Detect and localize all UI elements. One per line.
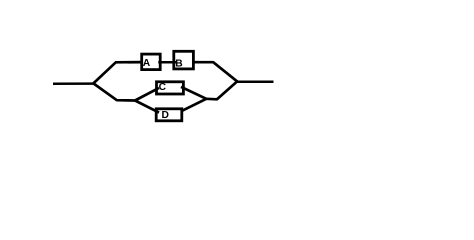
node bottom split [134, 99, 137, 102]
wire from merge node to right junction [206, 81, 237, 99]
svg-text:B: B [175, 58, 182, 69]
wire between box A and box B [158, 61, 176, 64]
svg-text:C: C [159, 82, 167, 93]
box C [157, 82, 184, 94]
box A [142, 54, 161, 70]
svg-text:D: D [162, 110, 169, 121]
wire bottom branch from left junction to split node [93, 83, 135, 100]
wire from box B to right junction [193, 62, 237, 81]
wire from box C to merge node [181, 87, 206, 99]
svg-text:A: A [143, 58, 151, 69]
node right junction [236, 80, 239, 83]
wire from split node to box C [135, 88, 159, 101]
wire from split node to box D [135, 101, 159, 113]
node bottom merge [205, 98, 208, 101]
wire from box D to merge node [181, 99, 206, 112]
wire top branch from left junction to box A [93, 62, 143, 83]
wire right terminal [237, 80, 273, 83]
node left junction [92, 82, 95, 85]
box D [156, 109, 182, 121]
box B [174, 51, 194, 69]
wire left terminal [53, 82, 93, 85]
